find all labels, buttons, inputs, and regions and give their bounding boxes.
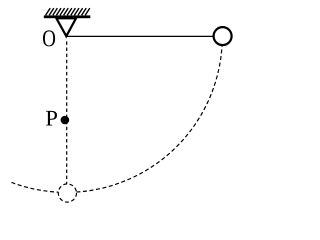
thick ceiling bar: [44, 15, 91, 18]
vertical dashed line from pivot O down: [66, 41, 68, 193]
label O (Liberation Serif glyph outline): [43, 30, 55, 46]
rod from pivot to ball: [66, 35, 214, 37]
point P dot: [61, 116, 70, 125]
dashed arc (swing path of ball): [10, 36, 222, 192]
hatching of fixed ceiling: [46, 8, 90, 15]
ball at initial horizontal position: [214, 27, 232, 45]
dashed circle (ball at lowest position): [58, 184, 76, 202]
label P (Liberation Serif glyph outline): [46, 111, 57, 126]
triangle pivot support: [56, 18, 76, 36]
